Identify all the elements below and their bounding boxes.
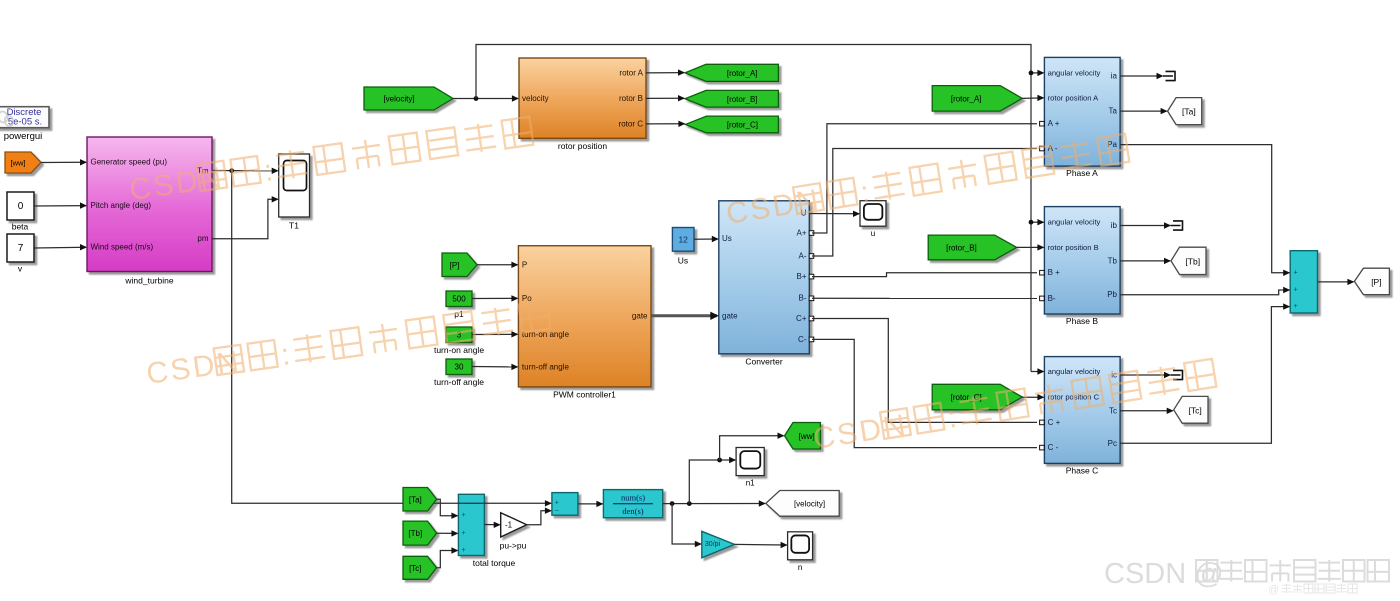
svg-text:Wind speed (m/s): Wind speed (m/s) (91, 243, 154, 252)
svg-text:-1: -1 (505, 520, 513, 529)
svg-text:+: + (461, 547, 465, 554)
svg-text:u: u (871, 229, 875, 238)
svg-text:Tc: Tc (1109, 406, 1117, 415)
svg-text:C +: C + (1048, 418, 1061, 427)
svg-text:[Ta]: [Ta] (409, 495, 422, 504)
svg-text:PWM controller1: PWM controller1 (553, 390, 616, 400)
svg-text:total torque: total torque (473, 558, 516, 568)
svg-text:[Tb]: [Tb] (408, 529, 422, 538)
svg-text:T1: T1 (289, 221, 299, 231)
svg-text:C+: C+ (796, 314, 807, 323)
svg-text:[Ta]: [Ta] (1182, 107, 1196, 117)
svg-text:n: n (798, 563, 802, 572)
svg-text:[velocity]: [velocity] (794, 499, 825, 508)
svg-text:Us: Us (678, 256, 688, 266)
svg-text:rotor C: rotor C (619, 119, 644, 128)
svg-text:B+: B+ (796, 272, 806, 281)
svg-text:gate: gate (722, 311, 738, 320)
svg-text:[rotor_B]: [rotor_B] (727, 95, 758, 104)
svg-text:Po: Po (522, 294, 532, 303)
svg-text:Tb: Tb (1108, 256, 1118, 265)
svg-text:[velocity]: [velocity] (383, 95, 414, 104)
svg-text:gate: gate (632, 311, 648, 320)
svg-text:angular velocity: angular velocity (1048, 367, 1101, 376)
svg-text:12: 12 (678, 234, 688, 244)
svg-text:den(s): den(s) (622, 506, 643, 516)
svg-text:+: + (555, 500, 559, 507)
svg-text:Phase A: Phase A (1066, 168, 1098, 178)
svg-text:[Tb]: [Tb] (1185, 256, 1200, 266)
svg-text:turn-on angle: turn-on angle (434, 345, 484, 355)
svg-text:ia: ia (1111, 72, 1118, 81)
svg-text:P: P (522, 260, 527, 269)
svg-text:[rotor_A]: [rotor_A] (951, 94, 982, 103)
svg-text:C-: C- (798, 335, 807, 344)
svg-text:rotor position: rotor position (558, 141, 607, 151)
svg-text:Converter: Converter (745, 357, 782, 367)
svg-text:rotor position B: rotor position B (1048, 243, 1099, 252)
svg-text:+: + (1293, 269, 1297, 276)
svg-text:Generator speed (pu): Generator speed (pu) (91, 158, 168, 167)
svg-text:powergui: powergui (4, 131, 43, 142)
svg-text:7: 7 (18, 243, 24, 254)
svg-text:Phase B: Phase B (1066, 316, 1098, 326)
svg-text:turn-off angle: turn-off angle (434, 377, 484, 387)
svg-text:ib: ib (1111, 221, 1118, 230)
svg-text:+: + (1293, 287, 1297, 294)
svg-text:CSDN @: CSDN @ (1104, 558, 1224, 590)
svg-text:num(s): num(s) (621, 492, 645, 502)
svg-text:Pb: Pb (1107, 290, 1117, 299)
svg-text:pm: pm (197, 234, 208, 243)
svg-text:Us: Us (722, 234, 732, 243)
svg-text:+: + (461, 530, 465, 537)
svg-text:wind_turbine: wind_turbine (124, 276, 173, 286)
svg-text:Ta: Ta (1109, 107, 1118, 116)
svg-text:rotor A: rotor A (619, 68, 643, 77)
svg-text:30: 30 (455, 363, 464, 372)
svg-text:[rotor_C]: [rotor_C] (727, 120, 758, 129)
svg-text:angular velocity: angular velocity (1048, 68, 1101, 77)
svg-text:0: 0 (18, 201, 24, 212)
svg-text:[ww]: [ww] (11, 159, 26, 168)
svg-text:[Tc]: [Tc] (1188, 405, 1201, 415)
svg-text:Pc: Pc (1108, 439, 1117, 448)
svg-text:B-: B- (799, 294, 807, 303)
svg-text:A +: A + (1048, 119, 1060, 128)
svg-text:rotor B: rotor B (619, 94, 643, 103)
svg-text:velocity: velocity (522, 94, 549, 103)
svg-text:[rotor_B]: [rotor_B] (946, 243, 977, 252)
svg-text:B +: B + (1048, 268, 1061, 277)
svg-text:n1: n1 (746, 479, 755, 488)
svg-text:beta: beta (12, 222, 29, 232)
svg-text:+: + (1293, 303, 1297, 310)
svg-text:Phase C: Phase C (1066, 465, 1099, 475)
svg-text:pu->pu: pu->pu (500, 541, 527, 551)
svg-text:angular velocity: angular velocity (1048, 218, 1101, 227)
svg-text:@: @ (1268, 584, 1279, 596)
svg-text:+: + (461, 512, 465, 519)
svg-text:−: − (555, 507, 559, 514)
svg-text:A-: A- (799, 252, 807, 261)
svg-text:B-: B- (1048, 294, 1056, 303)
svg-text:[P]: [P] (1371, 277, 1381, 287)
svg-text:30/pi: 30/pi (705, 541, 721, 548)
svg-text:500: 500 (452, 295, 466, 304)
svg-text:rotor position A: rotor position A (1048, 93, 1100, 102)
svg-text:[P]: [P] (450, 261, 460, 270)
svg-text:C -: C - (1048, 443, 1059, 452)
svg-text:A+: A+ (796, 229, 806, 238)
svg-text:turn-off angle: turn-off angle (522, 362, 570, 371)
svg-text:[rotor_A]: [rotor_A] (727, 69, 758, 78)
svg-text:[Tc]: [Tc] (409, 564, 421, 573)
